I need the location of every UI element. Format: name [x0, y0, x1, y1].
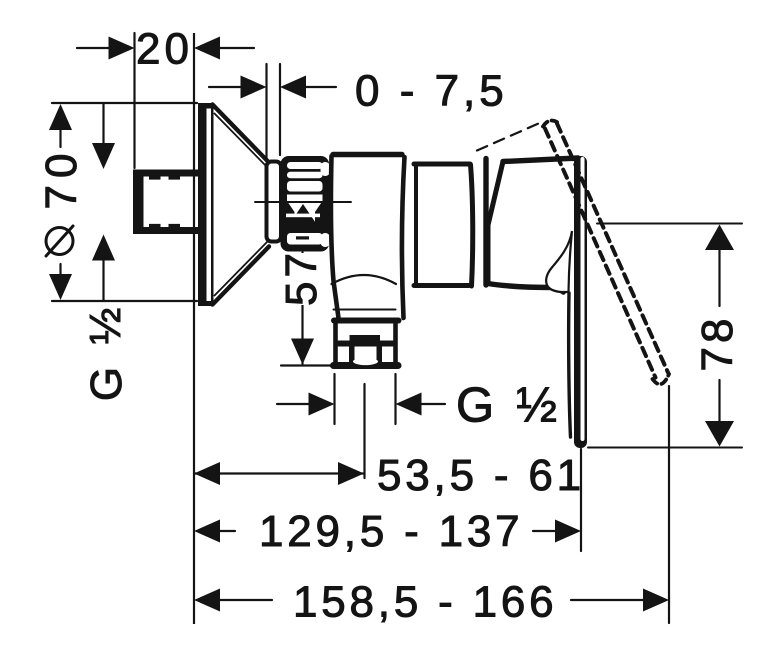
handle lever [574, 156, 587, 448]
svg-text:½: ½ [516, 379, 557, 433]
svg-text:½: ½ [81, 308, 130, 345]
escutcheon cone [213, 105, 270, 305]
dashed open handle position outline [477, 121, 669, 385]
handle escutcheon ring [483, 159, 488, 286]
dimension 0-7,5 arrows [209, 76, 336, 99]
handle junction fin [546, 231, 572, 437]
dimension 20 arrows [77, 37, 254, 60]
wire wall reference extension line [193, 33, 195, 624]
svg-text:158,5 - 166: 158,5 - 166 [293, 578, 557, 627]
wire extension line handle closed [580, 449, 582, 551]
dimension pipe G1/2 vertical arrows [92, 104, 115, 300]
union nut with threads [281, 156, 331, 252]
node centerline axis [255, 201, 351, 203]
wire extension lines for dim 78 [597, 223, 742, 225]
svg-text:0 - 7,5: 0 - 7,5 [355, 67, 508, 116]
neck ring [267, 162, 282, 242]
svg-text:70: 70 [37, 147, 86, 210]
dimension 57 upper arrow [286, 204, 320, 226]
svg-text:20: 20 [136, 25, 193, 74]
svg-text:G: G [82, 367, 131, 401]
svg-text:78: 78 [693, 315, 742, 372]
svg-text:129,5 - 137: 129,5 - 137 [259, 507, 523, 556]
dimension outlet G1/2 [277, 374, 445, 478]
dimension 53,5-61 [194, 462, 364, 485]
dimension 57 stem and lower arrow [281, 252, 334, 366]
wire extension lines of dim 0-7,5 [265, 64, 267, 161]
rear cartridge block [414, 164, 473, 286]
handle body [488, 158, 578, 293]
dimension 78 [705, 225, 734, 447]
label diameter symbol [46, 226, 73, 256]
svg-text:57: 57 [277, 249, 326, 306]
svg-text:G: G [456, 379, 494, 433]
dimension 129,5-137 [194, 520, 581, 543]
dimension diameter 70 [49, 103, 197, 301]
outlet nut G1/2 [334, 322, 399, 366]
pipe nipple G1/2 [133, 170, 199, 235]
dimension 158,5-166 [194, 589, 669, 612]
wire extension line left of dim 20 [133, 33, 135, 168]
wall flange plate [198, 103, 214, 306]
valve body front [331, 155, 405, 321]
wire extension line handle open [668, 386, 670, 623]
svg-text:53,5 - 61: 53,5 - 61 [377, 451, 585, 500]
